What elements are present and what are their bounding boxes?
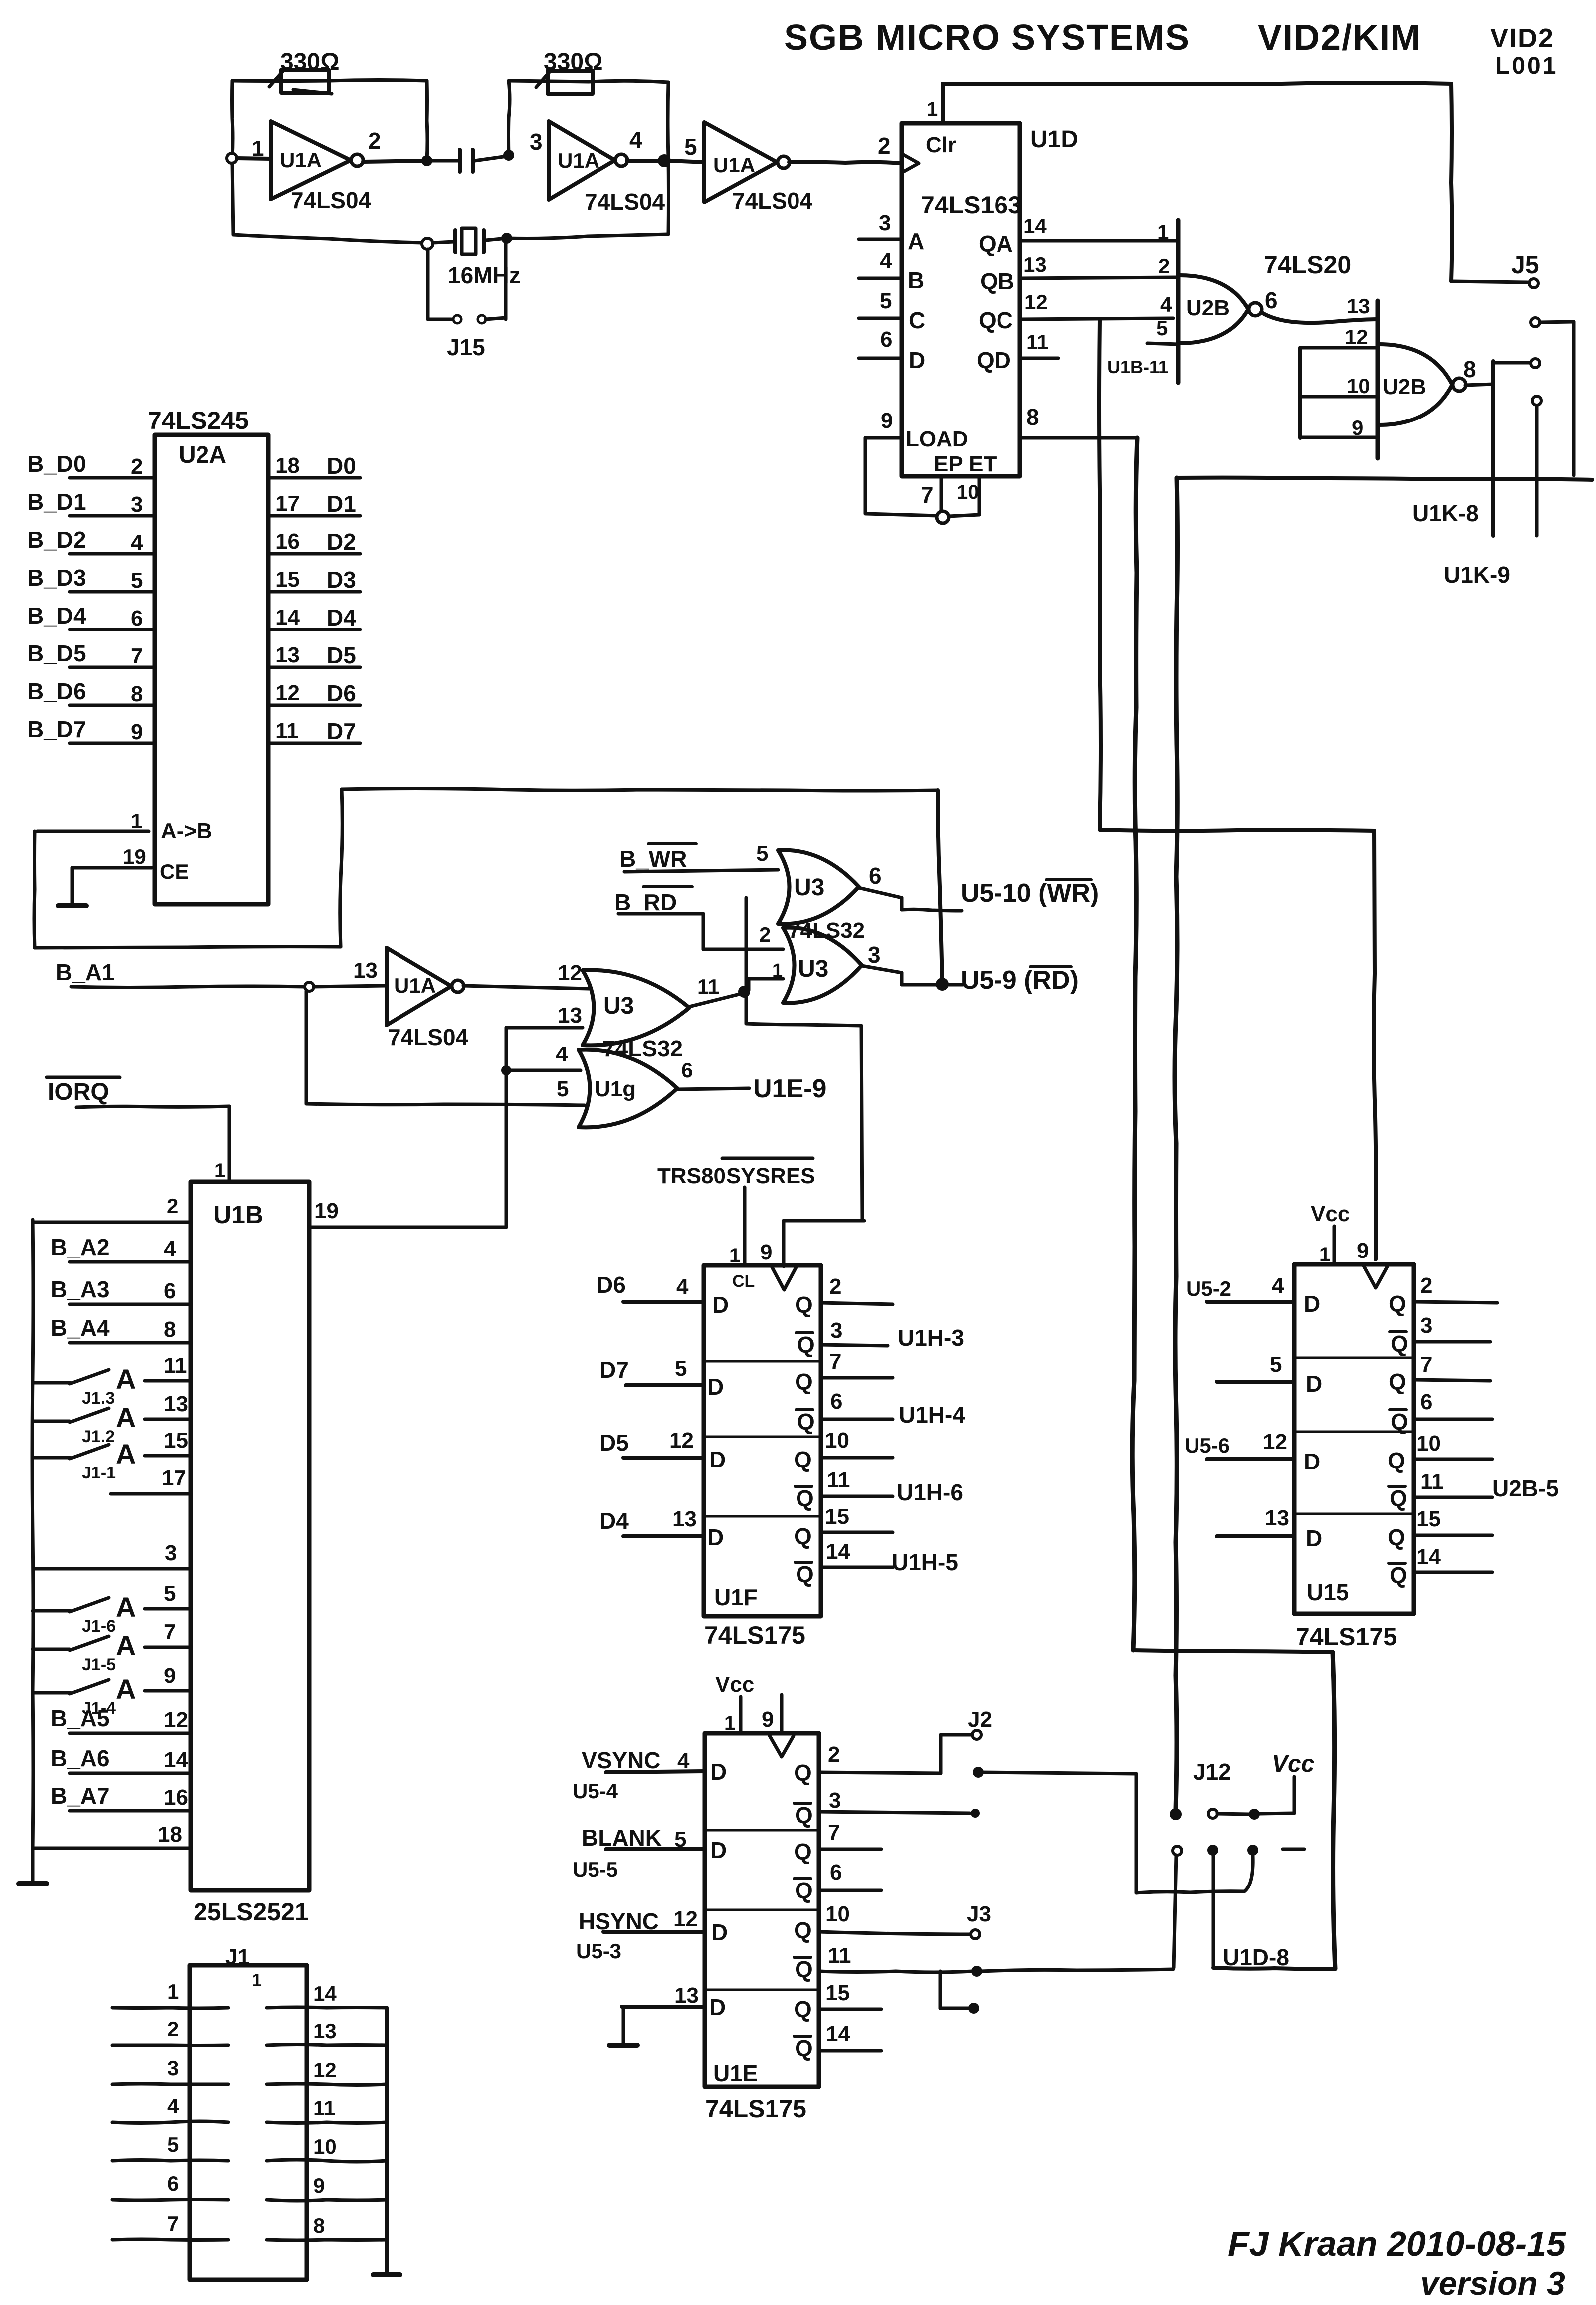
svg-text:11: 11 (697, 975, 719, 998)
svg-text:13: 13 (1347, 294, 1370, 318)
svg-text:U3: U3 (794, 874, 824, 901)
svg-text:8: 8 (1026, 404, 1039, 430)
svg-text:3: 3 (879, 211, 891, 235)
svg-text:11: 11 (164, 1353, 187, 1378)
svg-text:2: 2 (829, 1274, 841, 1299)
svg-text:74LS04: 74LS04 (388, 1024, 469, 1050)
svg-text:2: 2 (878, 133, 891, 159)
svg-text:9: 9 (881, 409, 893, 433)
svg-text:D7: D7 (599, 1357, 629, 1383)
svg-text:6: 6 (1420, 1390, 1432, 1414)
svg-text:18: 18 (275, 453, 300, 478)
svg-text:B_A6: B_A6 (51, 1745, 110, 1771)
svg-text:3: 3 (165, 1541, 177, 1565)
svg-text:14: 14 (275, 605, 300, 629)
svg-text:D: D (909, 347, 925, 373)
svg-text:U1g: U1g (595, 1077, 636, 1101)
svg-text:A->B: A->B (161, 819, 212, 843)
svg-text:Q: Q (795, 1878, 813, 1903)
svg-text:B_D1: B_D1 (27, 489, 86, 515)
svg-text:D2: D2 (327, 529, 356, 555)
svg-text:74LS04: 74LS04 (732, 188, 813, 213)
svg-text:3: 3 (167, 2056, 179, 2080)
svg-text:74LS32: 74LS32 (602, 1036, 683, 1061)
svg-text:U2B: U2B (1186, 296, 1230, 320)
svg-text:D7: D7 (327, 718, 356, 744)
svg-text:U2B: U2B (1383, 375, 1426, 399)
svg-text:J5: J5 (1511, 251, 1539, 279)
svg-text:2: 2 (167, 1194, 178, 1218)
svg-text:8: 8 (313, 2214, 325, 2237)
svg-text:4: 4 (131, 530, 143, 555)
svg-text:TRS80: TRS80 (657, 1164, 726, 1188)
svg-text:74LS175: 74LS175 (1296, 1623, 1397, 1651)
svg-text:Q: Q (797, 1409, 815, 1435)
svg-text:11: 11 (1026, 330, 1048, 354)
svg-text:B_D7: B_D7 (27, 716, 86, 742)
svg-text:SGB MICRO SYSTEMS: SGB MICRO SYSTEMS (784, 18, 1190, 58)
svg-text:B_D2: B_D2 (27, 527, 86, 553)
svg-text:U1E-9: U1E-9 (753, 1074, 826, 1103)
svg-text:B_D4: B_D4 (27, 603, 86, 629)
svg-text:25LS2521: 25LS2521 (194, 1898, 309, 1926)
svg-text:1: 1 (167, 1980, 179, 2003)
svg-text:2: 2 (1158, 254, 1170, 278)
svg-text:D5: D5 (599, 1430, 629, 1456)
svg-text:IORQ: IORQ (48, 1079, 109, 1105)
svg-text:U1H-5: U1H-5 (892, 1549, 958, 1575)
svg-text:D: D (1304, 1291, 1320, 1317)
svg-text:LOAD: LOAD (906, 427, 968, 451)
svg-text:13: 13 (558, 1003, 582, 1028)
svg-text:3: 3 (868, 942, 881, 968)
svg-text:9: 9 (762, 1707, 774, 1732)
svg-text:4: 4 (629, 127, 642, 153)
svg-text:Q: Q (1389, 1291, 1406, 1317)
svg-text:10: 10 (825, 1902, 850, 1926)
svg-text:330Ω: 330Ω (280, 49, 340, 75)
svg-text:12: 12 (164, 1708, 188, 1732)
svg-text:CL: CL (732, 1272, 755, 1291)
svg-text:B_WR: B_WR (619, 846, 687, 872)
svg-text:C: C (909, 307, 925, 333)
svg-text:J12: J12 (1193, 1759, 1231, 1785)
svg-text:A: A (116, 1363, 136, 1395)
svg-text:1: 1 (1157, 220, 1169, 244)
svg-text:version 3: version 3 (1420, 2265, 1565, 2302)
svg-text:7: 7 (167, 2212, 179, 2235)
svg-text:B_A3: B_A3 (51, 1276, 110, 1302)
svg-text:13: 13 (672, 1507, 697, 1531)
svg-text:9: 9 (1352, 416, 1363, 439)
svg-text:Q: Q (794, 1917, 812, 1943)
svg-text:U15: U15 (1307, 1579, 1349, 1605)
svg-text:B_A1: B_A1 (56, 959, 115, 985)
svg-text:6: 6 (880, 327, 892, 352)
svg-text:2: 2 (1420, 1273, 1432, 1298)
svg-text:14: 14 (826, 1539, 850, 1564)
svg-text:7: 7 (164, 1620, 176, 1644)
svg-text:U1F: U1F (714, 1584, 758, 1610)
svg-text:2: 2 (759, 923, 771, 946)
svg-text:13: 13 (1023, 253, 1047, 276)
svg-text:14: 14 (1023, 214, 1047, 238)
svg-text:U5-5: U5-5 (573, 1858, 618, 1881)
svg-text:U5-9 (RD): U5-9 (RD) (961, 966, 1079, 995)
svg-text:6: 6 (1265, 287, 1278, 313)
svg-text:B_D5: B_D5 (27, 640, 86, 666)
svg-text:9: 9 (313, 2174, 325, 2197)
svg-text:D: D (1306, 1371, 1322, 1397)
svg-text:15: 15 (164, 1428, 188, 1453)
svg-text:D: D (1304, 1449, 1320, 1474)
svg-text:3: 3 (1420, 1313, 1432, 1338)
svg-text:D: D (707, 1524, 724, 1550)
svg-text:8: 8 (164, 1317, 176, 1342)
svg-text:J1-5: J1-5 (82, 1655, 116, 1674)
svg-text:D: D (712, 1292, 729, 1318)
svg-text:18: 18 (158, 1822, 182, 1847)
svg-text:Q: Q (1390, 1485, 1407, 1511)
svg-text:B_A7: B_A7 (51, 1783, 110, 1809)
svg-text:D4: D4 (599, 1508, 629, 1534)
svg-text:VID2/KIM: VID2/KIM (1258, 18, 1421, 58)
svg-text:4: 4 (1272, 1273, 1284, 1298)
svg-text:D1: D1 (327, 491, 356, 517)
svg-text:U5-6: U5-6 (1185, 1434, 1230, 1457)
svg-text:19: 19 (314, 1199, 339, 1223)
svg-text:5: 5 (756, 841, 768, 866)
svg-text:B_D3: B_D3 (27, 565, 86, 591)
svg-text:U3: U3 (798, 956, 828, 982)
svg-text:J15: J15 (447, 334, 485, 360)
svg-text:6: 6 (869, 863, 882, 889)
svg-text:1: 1 (772, 960, 783, 981)
svg-text:B_A4: B_A4 (51, 1315, 110, 1341)
svg-text:Q: Q (797, 1332, 815, 1358)
svg-text:QD: QD (977, 347, 1011, 373)
svg-text:CE: CE (160, 860, 189, 883)
svg-text:U1H-3: U1H-3 (898, 1325, 964, 1351)
svg-text:13: 13 (674, 1983, 699, 2008)
svg-text:74LS04: 74LS04 (291, 187, 372, 213)
svg-text:13: 13 (353, 958, 378, 983)
svg-text:A: A (116, 1674, 136, 1705)
svg-text:12: 12 (1024, 290, 1048, 314)
svg-text:J2: J2 (968, 1707, 992, 1732)
svg-text:A: A (116, 1591, 136, 1623)
svg-text:16: 16 (275, 529, 300, 554)
svg-text:D4: D4 (327, 605, 356, 630)
svg-text:6: 6 (681, 1058, 693, 1082)
svg-text:9: 9 (131, 720, 143, 744)
svg-text:17: 17 (275, 491, 300, 516)
svg-text:74LS175: 74LS175 (705, 2095, 806, 2123)
svg-text:5: 5 (167, 2133, 179, 2156)
svg-text:QA: QA (979, 231, 1013, 257)
svg-text:U2B-5: U2B-5 (1492, 1475, 1559, 1501)
svg-text:J1-1: J1-1 (82, 1464, 116, 1482)
svg-text:FJ Kraan 2010-08-15: FJ Kraan 2010-08-15 (1228, 2224, 1566, 2263)
svg-text:9: 9 (760, 1240, 772, 1264)
svg-text:74LS245: 74LS245 (148, 407, 249, 434)
svg-text:6: 6 (164, 1279, 176, 1303)
svg-text:BLANK: BLANK (582, 1825, 662, 1851)
svg-text:U1K-9: U1K-9 (1444, 562, 1510, 588)
svg-text:U1D: U1D (1030, 126, 1078, 153)
svg-text:Q: Q (794, 1839, 812, 1865)
svg-text:D: D (711, 1919, 728, 1945)
svg-text:J1.2: J1.2 (82, 1427, 115, 1446)
svg-text:Q: Q (794, 1996, 812, 2022)
svg-text:74LS32: 74LS32 (788, 918, 865, 943)
svg-text:1: 1 (729, 1245, 740, 1266)
svg-text:U1D-8: U1D-8 (1223, 1944, 1289, 1970)
svg-text:Q: Q (795, 1369, 813, 1395)
svg-text:U5-4: U5-4 (573, 1779, 618, 1803)
svg-text:U1B: U1B (213, 1201, 263, 1229)
svg-text:5: 5 (131, 568, 143, 593)
svg-text:D6: D6 (597, 1272, 626, 1298)
svg-text:Q: Q (796, 1485, 814, 1511)
svg-text:Q: Q (1390, 1562, 1407, 1588)
svg-text:EP ET: EP ET (934, 452, 997, 476)
svg-text:SYSRES: SYSRES (726, 1164, 815, 1188)
svg-text:15: 15 (825, 1504, 849, 1529)
svg-text:Q: Q (1388, 1524, 1405, 1550)
svg-text:74LS04: 74LS04 (585, 189, 665, 214)
svg-text:4: 4 (676, 1274, 689, 1299)
svg-text:4: 4 (167, 2095, 179, 2118)
svg-text:10: 10 (313, 2135, 337, 2158)
svg-text:12: 12 (1345, 325, 1368, 349)
svg-text:U1H-4: U1H-4 (899, 1402, 965, 1428)
svg-text:13: 13 (313, 2019, 337, 2043)
svg-text:Q: Q (794, 1447, 812, 1472)
svg-text:A: A (116, 1630, 136, 1661)
svg-text:U2A: U2A (179, 442, 226, 468)
svg-text:1: 1 (252, 136, 264, 161)
svg-text:10: 10 (825, 1428, 849, 1453)
svg-text:6: 6 (167, 2172, 179, 2195)
svg-text:15: 15 (275, 567, 300, 592)
svg-text:1: 1 (252, 1970, 262, 1990)
svg-text:1: 1 (927, 98, 938, 120)
svg-text:B_A2: B_A2 (51, 1234, 110, 1260)
svg-text:16MHz: 16MHz (448, 262, 521, 288)
svg-text:Q: Q (794, 1523, 812, 1549)
svg-text:Q: Q (1391, 1409, 1408, 1435)
svg-text:D: D (710, 1759, 727, 1785)
svg-text:Q: Q (794, 1760, 812, 1786)
svg-text:12: 12 (1263, 1430, 1287, 1454)
svg-text:12: 12 (275, 681, 300, 705)
svg-text:3: 3 (830, 1318, 842, 1343)
svg-text:U1H-6: U1H-6 (897, 1479, 963, 1505)
svg-text:5: 5 (164, 1581, 176, 1606)
svg-text:2: 2 (828, 1742, 840, 1767)
svg-text:Vcc: Vcc (1311, 1202, 1350, 1226)
svg-text:Q: Q (795, 2035, 813, 2061)
svg-text:12: 12 (669, 1428, 694, 1453)
svg-text:3: 3 (530, 129, 543, 155)
svg-text:J1.3: J1.3 (82, 1389, 115, 1408)
svg-text:1: 1 (724, 1712, 735, 1734)
svg-text:15: 15 (1416, 1507, 1441, 1531)
svg-text:13: 13 (1265, 1506, 1289, 1530)
svg-text:J1-6: J1-6 (82, 1617, 116, 1636)
svg-text:B: B (908, 267, 924, 293)
svg-text:2: 2 (131, 454, 143, 479)
svg-text:11: 11 (1420, 1469, 1444, 1494)
svg-text:11: 11 (827, 1468, 850, 1492)
svg-text:U1A: U1A (394, 974, 436, 997)
svg-text:Q: Q (795, 1802, 813, 1828)
svg-text:Q: Q (795, 1956, 813, 1982)
svg-text:U1A: U1A (280, 148, 322, 172)
svg-text:D3: D3 (327, 567, 356, 593)
svg-text:1: 1 (1319, 1244, 1330, 1265)
svg-text:Q: Q (1391, 1331, 1408, 1357)
svg-text:3: 3 (131, 492, 143, 517)
svg-text:3: 3 (829, 1788, 841, 1813)
svg-text:B_A5: B_A5 (51, 1705, 110, 1731)
svg-text:D0: D0 (327, 453, 356, 479)
svg-text:1: 1 (214, 1160, 225, 1182)
svg-text:6: 6 (830, 1860, 842, 1885)
svg-text:D5: D5 (327, 642, 356, 668)
svg-text:74LS175: 74LS175 (704, 1621, 805, 1649)
svg-text:A: A (116, 1438, 136, 1469)
svg-text:6: 6 (830, 1389, 842, 1414)
svg-text:7: 7 (828, 1820, 840, 1845)
svg-text:17: 17 (162, 1466, 186, 1490)
svg-text:QC: QC (979, 307, 1013, 333)
svg-text:14: 14 (1416, 1545, 1441, 1569)
svg-text:6: 6 (131, 606, 143, 630)
svg-text:13: 13 (164, 1392, 188, 1416)
svg-text:Q: Q (1388, 1448, 1405, 1473)
svg-text:U1B-11: U1B-11 (1107, 357, 1168, 377)
svg-text:5: 5 (1156, 316, 1168, 340)
svg-text:11: 11 (313, 2096, 335, 2120)
svg-text:10: 10 (957, 481, 979, 503)
svg-text:12: 12 (313, 2058, 337, 2082)
svg-text:VSYNC: VSYNC (582, 1747, 660, 1773)
svg-text:8: 8 (1463, 356, 1476, 382)
svg-text:Q: Q (795, 1292, 813, 1318)
svg-text:5: 5 (1270, 1352, 1282, 1377)
svg-text:9: 9 (1357, 1239, 1369, 1263)
svg-text:Q: Q (1389, 1369, 1406, 1395)
svg-text:74LS20: 74LS20 (1264, 251, 1351, 279)
svg-text:12: 12 (558, 961, 582, 985)
svg-text:Clr: Clr (926, 133, 956, 157)
svg-text:19: 19 (123, 845, 146, 868)
svg-text:Vcc: Vcc (715, 1673, 754, 1697)
svg-text:D6: D6 (327, 680, 356, 706)
svg-text:8: 8 (131, 682, 143, 706)
svg-text:11: 11 (275, 719, 299, 743)
svg-text:9: 9 (164, 1664, 176, 1688)
svg-text:VID2: VID2 (1490, 23, 1554, 53)
svg-text:2: 2 (368, 128, 381, 154)
svg-text:U1A: U1A (713, 153, 755, 177)
svg-text:15: 15 (825, 1981, 850, 2005)
svg-text:B_D0: B_D0 (27, 451, 86, 477)
svg-text:QB: QB (980, 268, 1014, 294)
svg-text:D: D (710, 1837, 727, 1863)
svg-text:5: 5 (684, 134, 697, 160)
svg-text:330Ω: 330Ω (544, 49, 603, 75)
svg-text:7: 7 (1420, 1352, 1432, 1377)
svg-text:10: 10 (1416, 1431, 1441, 1456)
svg-text:A: A (908, 228, 924, 254)
svg-text:1: 1 (131, 809, 142, 833)
svg-text:11: 11 (828, 1943, 851, 1968)
svg-text:Vcc: Vcc (1272, 1751, 1314, 1777)
svg-text:10: 10 (1347, 374, 1370, 398)
svg-text:13: 13 (275, 643, 300, 667)
svg-text:B_RD: B_RD (614, 889, 677, 915)
svg-text:U5-2: U5-2 (1186, 1277, 1231, 1300)
svg-text:J3: J3 (967, 1902, 991, 1926)
svg-text:U5-10 (WR): U5-10 (WR) (961, 879, 1099, 908)
svg-text:4: 4 (1160, 293, 1172, 316)
svg-text:5: 5 (557, 1077, 569, 1101)
svg-text:14: 14 (164, 1748, 188, 1772)
svg-text:4: 4 (880, 249, 892, 273)
svg-text:U1K-8: U1K-8 (1412, 500, 1479, 526)
svg-text:D: D (709, 1994, 726, 2020)
svg-text:74LS163: 74LS163 (921, 191, 1022, 219)
svg-text:U1E: U1E (713, 2060, 758, 2086)
svg-text:4: 4 (556, 1042, 568, 1066)
svg-text:7: 7 (829, 1349, 841, 1374)
svg-text:Q: Q (796, 1561, 814, 1587)
svg-text:D: D (707, 1374, 724, 1400)
svg-text:5: 5 (880, 289, 892, 313)
svg-text:D: D (709, 1447, 726, 1472)
svg-text:14: 14 (826, 2022, 850, 2046)
svg-text:U1A: U1A (558, 149, 599, 172)
svg-text:16: 16 (164, 1785, 188, 1810)
svg-text:7: 7 (131, 644, 143, 668)
svg-text:U5-3: U5-3 (576, 1939, 621, 1963)
svg-text:U3: U3 (603, 993, 634, 1019)
svg-text:A: A (116, 1402, 136, 1433)
svg-text:7: 7 (921, 482, 934, 508)
svg-text:4: 4 (164, 1237, 176, 1261)
svg-text:B_D6: B_D6 (27, 678, 86, 704)
svg-text:5: 5 (675, 1356, 687, 1381)
svg-text:12: 12 (673, 1907, 698, 1931)
svg-text:14: 14 (313, 1982, 337, 2005)
svg-text:L001: L001 (1495, 53, 1558, 79)
svg-text:D: D (1306, 1525, 1322, 1551)
svg-text:2: 2 (167, 2017, 179, 2041)
